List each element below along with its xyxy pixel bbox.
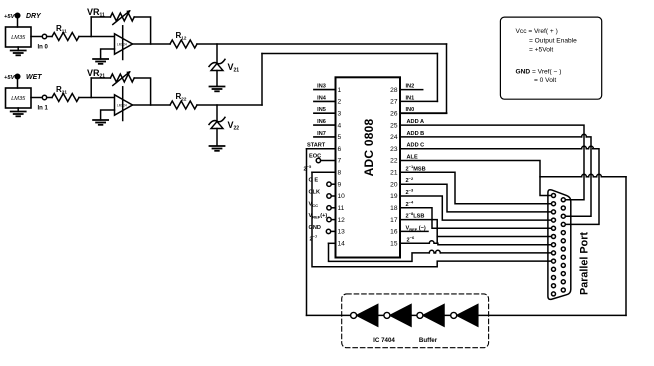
ground at op-amp + input <box>93 120 108 125</box>
+5V supply node 1 <box>4 13 20 27</box>
svg-text:EOC: EOC <box>309 154 321 160</box>
svg-text:14: 14 <box>338 241 346 248</box>
wire resistor to op-amp inverting input <box>79 36 115 38</box>
resistor R12 <box>170 31 197 48</box>
ADC pin 7 EOC terminal <box>309 154 336 163</box>
feedback wire top-left <box>91 16 110 18</box>
svg-text:LM35: LM35 <box>11 96 26 102</box>
ground at op-amp + input <box>93 59 108 64</box>
resistor R22 <box>170 92 197 109</box>
svg-text:WET: WET <box>26 74 42 81</box>
wire R12 to ADC IN0 route (long top run) <box>197 43 447 45</box>
ADC pin 6 START <box>307 143 336 149</box>
resistor 11 <box>52 24 79 41</box>
svg-text:6: 6 <box>338 146 342 153</box>
ADC pin 1 IN3 <box>314 84 336 90</box>
ADC pin 9 OE terminal <box>309 178 336 187</box>
ADC pin 3 IN5 <box>314 107 336 113</box>
LM35 sensor U2 <box>6 88 32 108</box>
svg-text:ADD A: ADD A <box>407 119 425 125</box>
ADC pin 27 IN1 <box>400 95 437 101</box>
ADC pin 2 IN4 <box>314 95 336 101</box>
wire down to IN0 <box>446 44 448 113</box>
ADC pin 18 2^-4 wire to port <box>400 199 551 228</box>
svg-text:ALE: ALE <box>407 155 418 161</box>
feedback wire up from node <box>90 78 92 98</box>
ADC pin 26 IN0 <box>400 107 447 113</box>
ADC pin 21 2^-1MSB wire to port <box>400 164 551 204</box>
ADC pin 13 GND terminal <box>309 225 336 234</box>
wire down to IN1 <box>436 54 438 102</box>
svg-text:GND: GND <box>309 225 321 231</box>
svg-text:IN0: IN0 <box>406 107 415 113</box>
op-amp U: ADC 0808 chip body <box>336 77 401 257</box>
svg-text:DRY: DRY <box>26 13 42 20</box>
ADC pin 19 2^-3 wire to port <box>400 188 551 221</box>
op-amp U2 <box>115 87 133 121</box>
svg-text:+5V: +5V <box>4 14 16 20</box>
svg-text:20: 20 <box>390 181 398 188</box>
svg-text:In 0: In 0 <box>38 45 49 51</box>
ADC pin 5 IN7 <box>314 131 336 137</box>
feedback wire top-left <box>91 77 110 79</box>
wire 2^-5 route: down, under chip, up to port row <box>312 172 551 266</box>
svg-text:= Output Enable: = Output Enable <box>529 37 577 44</box>
inverter gate 2 of IC 7404 <box>384 305 411 327</box>
ground under V22 <box>210 146 225 151</box>
wire WET top run to IN1 <box>262 53 437 55</box>
svg-text:GND = Vref( − ): GND = Vref( − ) <box>516 69 562 76</box>
ADC pin 12 VREF(+) terminal <box>309 213 336 222</box>
svg-text:12: 12 <box>338 217 346 224</box>
wire right riser down to buffer output line <box>625 177 627 316</box>
wire LM35 to input terminal <box>31 97 42 99</box>
svg-text:Vcc = Vref( + ): Vcc = Vref( + ) <box>516 28 558 35</box>
ADC pin 28 IN2 <box>400 84 423 90</box>
svg-text:Buffer: Buffer <box>419 337 438 344</box>
op-amp U1 <box>115 26 133 60</box>
svg-text:21: 21 <box>390 170 398 177</box>
wire op-amp1 output to R12 <box>133 43 171 45</box>
DB25 pins column 1 <box>552 194 556 296</box>
svg-text:25: 25 <box>390 122 398 129</box>
inverter gate 1 of IC 7404 <box>351 305 378 327</box>
ADC pin 22 ALE wire to port and buffer branch <box>400 155 551 196</box>
potentiometer VR21 <box>87 68 134 86</box>
svg-text:4: 4 <box>338 122 342 129</box>
svg-text:16: 16 <box>390 229 398 236</box>
svg-text:LM35: LM35 <box>11 35 26 41</box>
resistor 21 <box>52 85 79 102</box>
svg-text:IN6: IN6 <box>317 119 326 125</box>
wire 2^-7 route: down, under chip, up to port row <box>329 243 430 261</box>
input terminal In 1 <box>38 95 49 111</box>
svg-text:13: 13 <box>338 229 346 236</box>
svg-text:ADD C: ADD C <box>407 143 425 149</box>
svg-text:24: 24 <box>390 134 398 141</box>
op-amp non-inverting input wire <box>101 110 115 120</box>
svg-text:LM324: LM324 <box>117 104 127 108</box>
ADC pin 10 CLK terminal <box>309 190 336 199</box>
ADC pin 16 VREF(-) stub <box>400 225 428 232</box>
ADC pin 24 ADD B wire to port <box>400 131 591 216</box>
svg-text:2: 2 <box>338 99 342 106</box>
ADC pin 11 VCC terminal <box>309 201 336 210</box>
svg-text:CLK: CLK <box>309 190 321 196</box>
svg-text:27: 27 <box>390 99 398 106</box>
svg-text:9: 9 <box>338 181 342 188</box>
svg-text:START: START <box>307 143 326 149</box>
svg-text:19: 19 <box>390 193 398 200</box>
feedback wire up from node <box>90 17 92 37</box>
ADC pin 8 2^-5 output <box>304 164 336 172</box>
svg-text:IN7: IN7 <box>317 131 326 137</box>
wire LM35 to input terminal <box>31 36 42 38</box>
svg-text:1: 1 <box>338 87 342 94</box>
svg-text:VREF(+): VREF(+) <box>309 213 328 220</box>
svg-text:7: 7 <box>338 158 342 165</box>
+5V supply node 2 <box>4 74 20 88</box>
wire terminal to resistor <box>47 36 52 38</box>
op-amp non-inverting input wire <box>101 49 115 59</box>
svg-text:IN5: IN5 <box>317 107 326 113</box>
svg-text:IN1: IN1 <box>406 95 415 101</box>
svg-text:O E: O E <box>309 178 319 184</box>
svg-text:ADD B: ADD B <box>407 131 425 137</box>
ADC pin 4 IN6 <box>314 119 336 125</box>
note box Vcc/GND <box>500 17 601 99</box>
ADC pin 23 ADD C wire to port <box>400 143 599 225</box>
wire R22 to riser <box>197 104 262 106</box>
potentiometer VR11 <box>87 7 134 25</box>
svg-text:In 1: In 1 <box>38 106 49 112</box>
svg-text:IN4: IN4 <box>317 95 327 101</box>
wire op-amp2 output to R22 <box>133 104 171 106</box>
ground under V21 <box>210 87 225 92</box>
svg-text:26: 26 <box>390 110 398 117</box>
svg-text:VREF (−): VREF (−) <box>406 225 426 232</box>
ADC pin 17 2^-8 LSB wire to port <box>400 211 551 243</box>
svg-text:11: 11 <box>338 205 345 212</box>
feedback wire top-right and down to output <box>134 78 150 105</box>
ADC pin 20 2^-2 wire to port <box>400 176 551 212</box>
svg-text:= +5Volt: = +5Volt <box>529 47 553 54</box>
wire terminal to resistor <box>47 97 52 99</box>
svg-text:10: 10 <box>338 193 346 200</box>
wire WET riser up <box>261 54 263 106</box>
svg-text:22: 22 <box>390 158 398 165</box>
input terminal In 0 <box>38 34 49 50</box>
connector DB25 Parallel Port outline <box>548 190 571 300</box>
ADC pin 25 ADD A wire to port <box>400 119 584 200</box>
wire ALE branch across to right riser (with hops) <box>540 174 626 177</box>
zener diode V21 <box>209 44 239 86</box>
buffer enclosure (dashed) <box>342 294 489 348</box>
svg-text:3: 3 <box>338 110 342 117</box>
ground under LM35 1 <box>11 47 26 55</box>
svg-text:= 0 Volt: = 0 Volt <box>534 77 556 84</box>
ADC pin numbers 28-15 <box>390 87 398 248</box>
ADC pin 14 2^-7 output <box>310 234 336 243</box>
wire resistor to op-amp inverting input <box>79 97 115 99</box>
feedback wire top-right and down to output <box>134 17 150 44</box>
zener diode V22 <box>209 105 239 146</box>
ADC pin 15 2^-6 wire to port <box>400 235 551 245</box>
svg-text:23: 23 <box>390 146 398 153</box>
svg-text:ADC 0808: ADC 0808 <box>362 119 376 177</box>
svg-text:IN3: IN3 <box>317 84 326 90</box>
svg-text:17: 17 <box>390 217 398 224</box>
svg-text:LM324: LM324 <box>117 43 127 47</box>
svg-text:+5V: +5V <box>4 75 16 81</box>
inverter gate 4 of IC 7404 <box>451 305 478 327</box>
DB25 pins column 2 <box>561 198 565 292</box>
svg-text:Parallel Port: Parallel Port <box>579 232 591 295</box>
svg-text:IN2: IN2 <box>406 84 415 90</box>
inverter gate 3 of IC 7404 <box>417 305 444 327</box>
wire START down to buffer line <box>306 149 308 316</box>
svg-text:5: 5 <box>338 134 342 141</box>
LM35 sensor U1 <box>6 27 32 47</box>
svg-text:VCC: VCC <box>309 201 319 208</box>
ADC pin numbers 1-14 <box>338 87 346 248</box>
svg-text:8: 8 <box>338 170 342 177</box>
wire buffer chain line <box>307 314 627 316</box>
svg-text:15: 15 <box>390 241 398 248</box>
svg-text:28: 28 <box>390 87 398 94</box>
svg-text:IC 7404: IC 7404 <box>373 337 395 344</box>
ground under LM35 2 <box>11 108 26 116</box>
svg-text:18: 18 <box>390 205 398 212</box>
